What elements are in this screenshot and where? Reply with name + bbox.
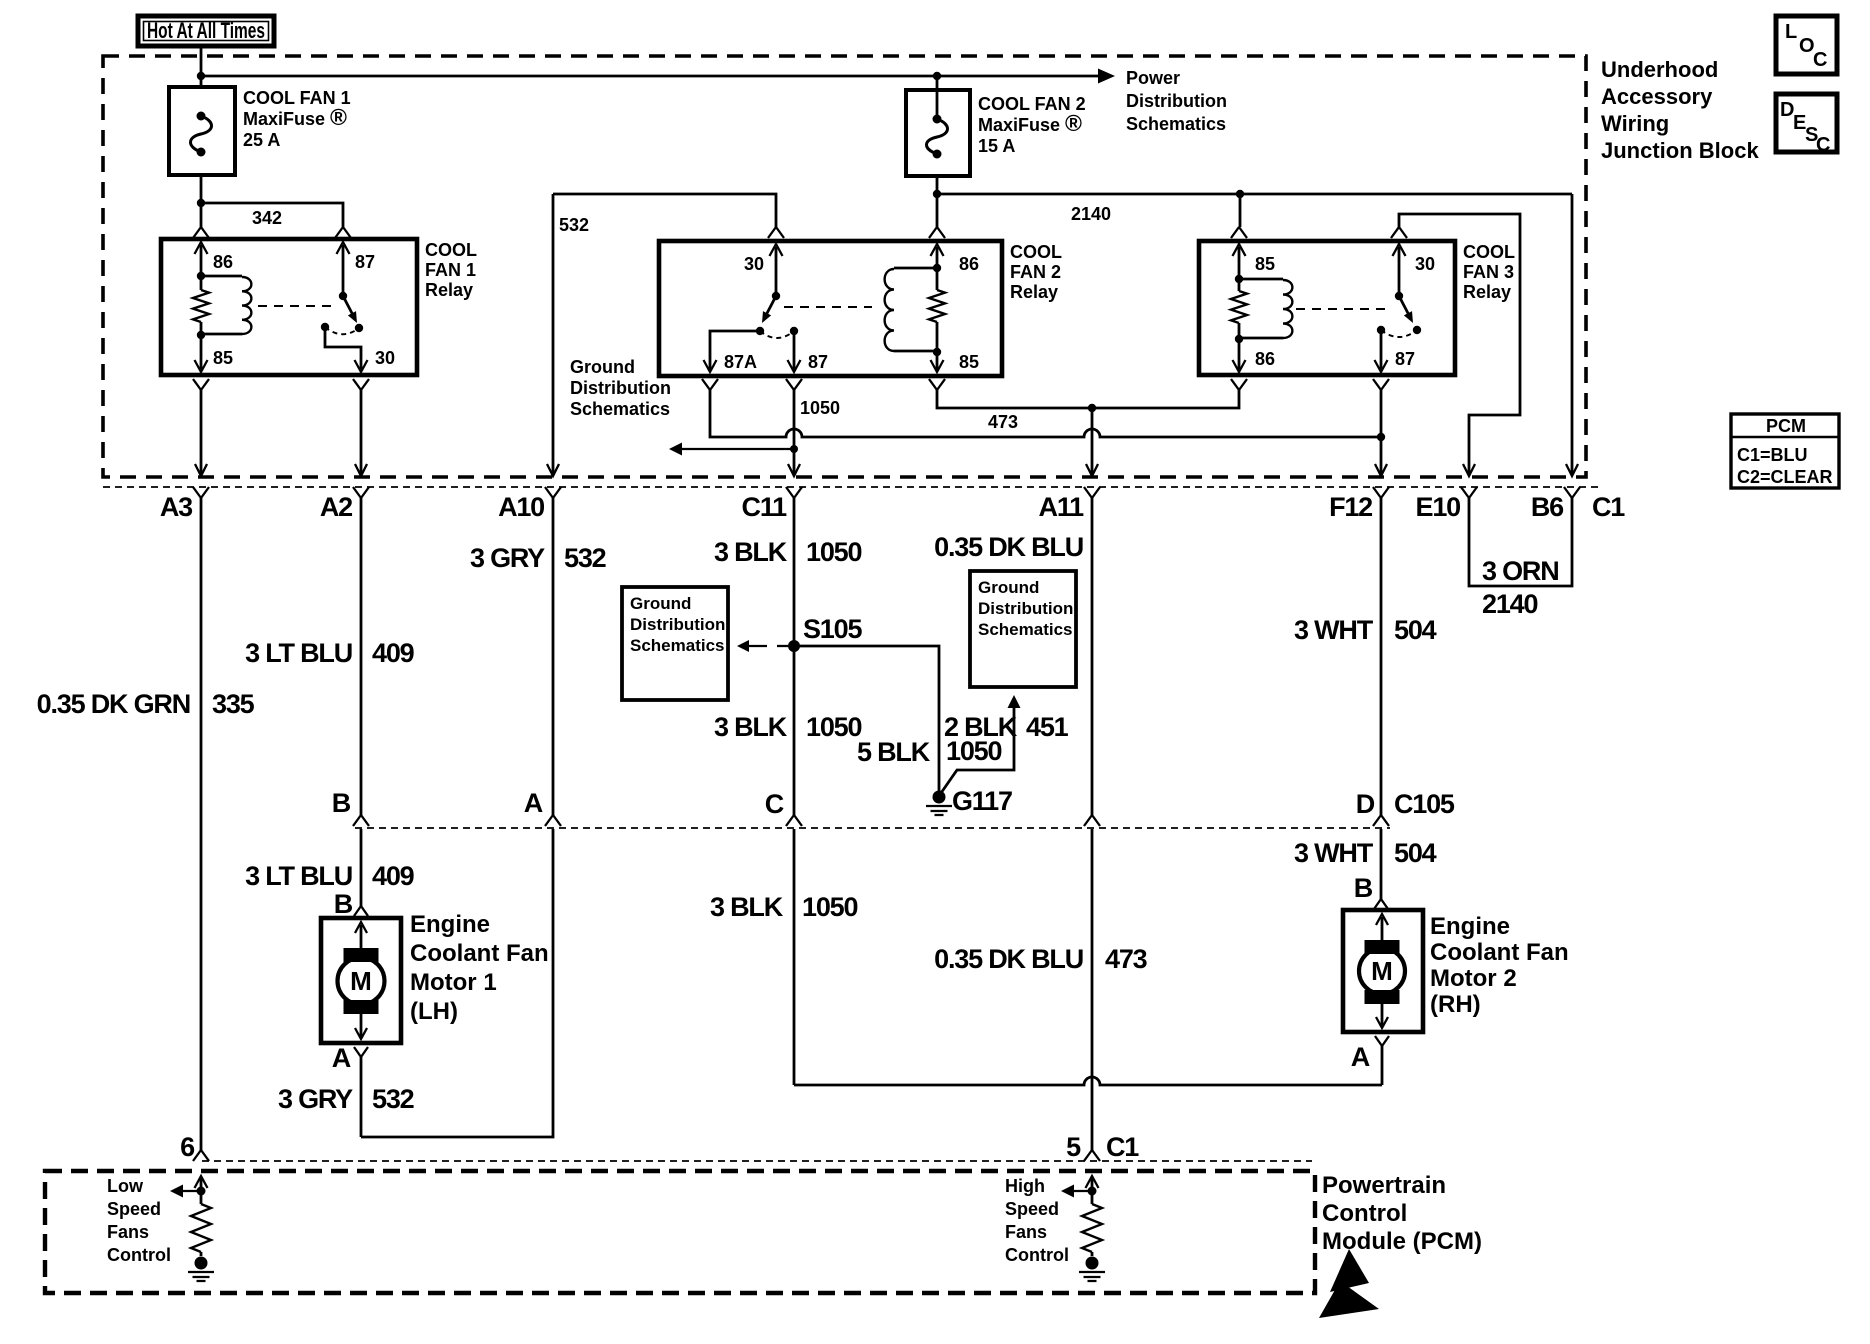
svg-text:1050: 1050 [800,398,840,418]
wire: fuse F1 output / circuit 342 bus [197,175,343,227]
svg-text:Low: Low [107,1176,144,1196]
svg-text:15 A: 15 A [978,136,1015,156]
label: Low Speed Fans Control [107,1176,171,1265]
svg-text:Speed: Speed [1005,1199,1059,1219]
pin label: PCM pin 6 [180,1132,195,1162]
svg-text:2140: 2140 [1482,589,1537,619]
connector row arrows at junction block boundary [195,462,1578,476]
wire: circuit 473 from relay K2 pin 85 to relay K3 pin 86 [937,390,1239,408]
svg-text:0.35 DK BLU: 0.35 DK BLU [934,532,1083,562]
arrow: S105 to Ground Distribution Schematics [737,640,788,652]
svg-text:Power: Power [1126,68,1180,88]
svg-text:(LH): (LH) [410,998,458,1025]
svg-text:Schematics: Schematics [978,620,1073,639]
cups below relay K1 [193,379,369,390]
PCM connector row dashed line [202,1160,1312,1162]
relay K3: COOL FAN 3 Relay [1199,241,1455,375]
relay K2 pin 86 [931,244,980,274]
relay K3 coil [1239,279,1292,338]
svg-text:C: C [765,789,784,819]
svg-text:3 WHT: 3 WHT [1294,615,1374,645]
reference box: DESC [1776,94,1837,156]
value label: 3 BLK 1050 (lower) [710,892,857,922]
svg-text:Engine: Engine [1430,913,1510,940]
svg-text:2140: 2140 [1071,204,1111,224]
pin label: motor M1 pin B [334,889,353,919]
svg-text:F12: F12 [1329,492,1372,522]
value label: 0.35 DK BLU 473 (lower) [934,944,1147,974]
wire: relay K3 pin 30 feed loop [1399,214,1520,462]
svg-text:M: M [350,966,372,996]
svg-text:532: 532 [372,1084,414,1114]
wire: circuit 2140 bus from fuse F2 [933,176,1572,462]
label: Engine Coolant Fan Motor 1 (LH) [410,911,549,1025]
relay K2 coil-to-switch dashed link [784,306,872,308]
relay K2 coil [885,268,937,351]
label: Power Distribution Schematics [1126,68,1227,134]
svg-text:451: 451 [1026,712,1069,742]
relay K1 pin 30 [325,327,395,372]
svg-text:Control: Control [1322,1200,1407,1227]
relay K3 coil-to-switch dashed link [1296,308,1392,310]
relay K1 NC contact + dashed arc [321,323,359,334]
svg-text:Control: Control [1005,1245,1069,1265]
reference box: Ground Distribution Schematics (right) [970,571,1076,687]
svg-text:1050: 1050 [802,892,857,922]
value label: 3 LT BLU 409 (upper) [245,638,415,668]
svg-text:Engine: Engine [410,911,490,938]
wire: relay K3 pin 87 to F12 [1377,390,1385,462]
svg-text:473: 473 [1105,944,1148,974]
svg-text:30: 30 [1415,254,1435,274]
wire: circuit 451 (2 BLK) from G117 to Ground Distribution [941,695,1021,793]
svg-text:Junction Block: Junction Block [1601,138,1759,163]
label: COOL FAN 3 Relay [1463,242,1515,302]
svg-text:C1: C1 [1106,1132,1139,1162]
relay K1: COOL FAN 1 Relay [161,239,417,375]
pin label: B at C105 [332,788,351,818]
svg-text:85: 85 [213,348,233,368]
value label: 0.35 DK GRN 335 [37,689,255,719]
svg-text:Speed: Speed [107,1199,161,1219]
svg-text:Schematics: Schematics [1126,114,1226,134]
wire: relay K2 pin 87A to F12 (hops over 1050 and 473 wires) [710,390,1381,437]
ground G117 [926,786,1012,816]
legend box: PCM connector colors [1731,414,1839,488]
relay K2 pin 87 [788,331,829,372]
fuse F2: COOL FAN 2 MaxiFuse 15 A [906,76,970,176]
svg-text:B: B [334,889,353,919]
svg-text:COOL: COOL [1010,242,1062,262]
relay K2 pin 30 [744,244,783,296]
splice S105 [788,614,862,652]
svg-text:High: High [1005,1176,1045,1196]
wire: relay K2 pin 87 / circuit 1050 to C11 [793,390,796,462]
relay K3 pin 85 [1233,244,1276,279]
svg-text:Relay: Relay [1010,282,1058,302]
svg-text:A: A [332,1043,351,1073]
svg-text:86: 86 [1255,349,1275,369]
svg-text:30: 30 [744,254,764,274]
value label: 5 BLK [857,737,931,767]
svg-text:D: D [1356,789,1375,819]
pin label: A at C105 [524,788,543,818]
reference box: Ground Distribution Schematics (left) [622,587,728,700]
value label: 2 BLK 1050 [944,712,1018,766]
value label: 451 [1026,712,1069,742]
wire: circuit 532 (3 GRY) A10 down to motor M1 pin A [361,498,561,1137]
relay K2 coil resistor [929,264,945,356]
relay K1 pin 85 [195,335,234,372]
svg-text:3 GRY: 3 GRY [470,543,545,573]
label: High Speed Fans Control [1005,1176,1069,1265]
relay K2 switch blade [756,292,780,335]
value label: 3 LT BLU 409 (lower) [245,861,415,891]
value label: circuit 532 [559,215,589,235]
node: 473 junction to A11 [1088,404,1096,412]
C105 connector row dashed line [355,827,1390,829]
relay K2 pin 85 [931,352,980,372]
svg-text:87: 87 [808,352,828,372]
svg-text:C11: C11 [742,492,788,522]
svg-text:Coolant Fan: Coolant Fan [410,940,549,967]
wire: circuit 532 bus to relay K2 pin 30 [553,194,776,462]
wire: circuits 2140/3 ORN at E10 and B6 tied together [1469,498,1572,586]
resistor: PCM high speed driver [1082,1191,1102,1256]
relay K3 pin 30 [1393,244,1436,296]
pin label: motor M2 pin B [1354,873,1373,903]
wire: circuit 1050 (3 BLK) C11 down through S105 [786,498,802,1085]
svg-text:6: 6 [180,1132,195,1162]
wire: ground path motor M2 A to circuit 1050 (hops over 473 wire) [794,1077,1382,1085]
svg-text:473: 473 [988,412,1018,432]
svg-text:86: 86 [213,252,233,272]
svg-text:Relay: Relay [425,280,473,300]
value label: 3 WHT 504 (lower) [1294,838,1437,868]
node: feed junction at fuse F2 [933,72,941,80]
svg-text:3 BLK: 3 BLK [714,537,788,567]
connector row dashed line C1 row [103,486,1600,488]
relay K3 pin 87 [1375,330,1416,372]
svg-text:B: B [332,788,351,818]
value label: 3 GRY 532 (motor M1 A) [278,1084,414,1114]
svg-text:3 LT BLU: 3 LT BLU [245,861,352,891]
resistor: PCM low speed driver [191,1191,211,1256]
svg-text:Distribution: Distribution [1126,91,1227,111]
label: Underhood Accessory Wiring Junction Block [1601,57,1759,163]
svg-text:(RH): (RH) [1430,991,1481,1018]
wire: relay K1 pin 85 to A3 [200,390,203,462]
svg-text:Ground: Ground [630,594,691,613]
relay K2: COOL FAN 2 Relay [659,241,1002,376]
PCM high speed fans control input [1086,1176,1099,1196]
connector cups into relay K2 [768,227,945,238]
svg-text:Distribution: Distribution [570,378,671,398]
wire: feed bus to Power Distribution [201,75,1098,78]
relay K3 contact 87 dot + dashed arc [1377,326,1417,337]
connector cups into relay K1 [193,227,351,238]
PCM connector cups [193,1150,1100,1161]
svg-text:532: 532 [559,215,589,235]
svg-text:G117: G117 [952,786,1012,816]
svg-text:FAN 2: FAN 2 [1010,262,1061,282]
svg-text:Motor 1: Motor 1 [410,969,497,996]
wire: S105 to ground G117 (5 BLK 1050) [794,646,939,791]
svg-text:Ground: Ground [570,357,635,377]
pin label: C at C105 [765,789,784,819]
svg-text:A10: A10 [498,492,544,522]
motor M1 pin A output [332,1043,368,1137]
svg-text:30: 30 [375,348,395,368]
svg-text:25 A: 25 A [243,130,280,150]
connector cups into relay K3 [1231,227,1407,238]
wire: battery feed from Hot At All Times into junction block [200,46,203,88]
svg-text:532: 532 [564,543,606,573]
svg-text:Motor 2: Motor 2 [1430,965,1517,992]
value label: circuit 342 [252,208,282,228]
relay K1 coil [201,276,251,334]
svg-text:Schematics: Schematics [630,636,725,655]
svg-text:L: L [1785,21,1797,43]
value label: 3 WHT 504 (upper) [1294,615,1437,645]
wire: circuit 473 down to A11 [1091,408,1094,462]
svg-text:FAN 3: FAN 3 [1463,262,1514,282]
relay K1 coil-to-switch dashed link [258,305,336,307]
svg-text:87: 87 [1395,349,1415,369]
svg-text:Schematics: Schematics [570,399,670,419]
connector C105 pin D label [1356,789,1455,819]
node: feed junction at fuse F1 [197,72,205,80]
relay K1 switch blade [339,292,363,332]
value label: circuit 2140 [1071,204,1111,224]
svg-text:Distribution: Distribution [630,615,725,634]
svg-text:M: M [1371,956,1393,986]
value label: circuit 1050 [800,398,840,418]
relay K2 pin 87A [704,331,761,372]
cups below relay K2 [702,379,945,390]
relay K3 pin 86 [1233,339,1276,372]
svg-text:COOL: COOL [1463,242,1515,262]
svg-text:1050: 1050 [946,736,1001,766]
svg-text:3 ORN: 3 ORN [1482,556,1559,586]
relay K2 contact 87 dot + dashed arc [760,327,798,338]
relay K3 switch blade [1395,292,1421,334]
arrow: 1050 to Ground Distribution Schematics [669,443,798,456]
svg-text:3 LT BLU: 3 LT BLU [245,638,352,668]
svg-text:Fans: Fans [107,1222,149,1242]
svg-text:A2: A2 [320,492,352,522]
svg-text:A11: A11 [1039,492,1085,522]
value label: 3 GRY 532 (upper) [470,543,606,573]
svg-text:C1: C1 [1592,492,1625,522]
wire: circuit 504 (3 WHT) F12 to motor M2 pin B [1373,498,1389,909]
svg-text:E10: E10 [1416,492,1461,522]
svg-text:86: 86 [959,254,979,274]
svg-text:85: 85 [1255,254,1275,274]
svg-text:Wiring: Wiring [1601,111,1669,136]
value label: 3 BLK 1050 (upper) [714,537,861,567]
connector row cups [193,487,1580,498]
svg-text:Accessory: Accessory [1601,84,1713,109]
relay K1 pin 87 [337,242,376,296]
motor M2: Engine Coolant Fan Motor 2 (RH) [1343,910,1423,1032]
svg-text:3 GRY: 3 GRY [278,1084,353,1114]
svg-text:A3: A3 [160,492,193,522]
pin labels: A3 A2 A10 C11 A11 F12 E10 B6 / connector C1 [160,492,1625,522]
svg-text:409: 409 [372,861,415,891]
svg-text:C: C [1816,134,1830,156]
symbol: ESD sensitive device [1319,1249,1379,1318]
label: Ground Distribution Schematics (left of relay K2) [570,357,671,419]
wire: circuit 409 (3 LT BLU) A2 to motor M1 pin B [353,498,369,916]
svg-text:0.35 DK GRN: 0.35 DK GRN [37,689,190,719]
svg-text:C: C [1813,49,1827,71]
svg-text:B: B [1354,873,1373,903]
value label: 3 BLK 1050 (middle) [714,712,861,742]
svg-text:87: 87 [355,252,375,272]
value label: 0.35 DK BLU (upper) [934,532,1083,562]
svg-text:3 BLK: 3 BLK [710,892,784,922]
svg-text:Coolant Fan: Coolant Fan [1430,939,1569,966]
svg-text:Fans: Fans [1005,1222,1047,1242]
label: fuse F2 name/value [978,94,1086,156]
svg-text:S105: S105 [803,614,862,644]
label: COOL FAN 2 Relay [1010,242,1062,302]
svg-text:C105: C105 [1394,789,1455,819]
value label: circuit 473 [988,412,1018,432]
label: fuse F1 name/value [243,88,351,150]
PCM low speed fans control input [195,1176,208,1196]
label: Hot At All Times [138,16,274,46]
arrow: high speed fans control [1061,1185,1092,1198]
svg-text:Ground: Ground [978,578,1039,597]
svg-text:C1=BLU: C1=BLU [1737,445,1808,465]
reference box: LOC [1776,16,1837,74]
svg-text:Hot At All Times: Hot At All Times [147,18,265,43]
label: Engine Coolant Fan Motor 2 (RH) [1430,913,1569,1018]
svg-text:0.35 DK BLU: 0.35 DK BLU [934,944,1083,974]
wire: circuit 335 (0.35 DK GRN) A3 to PCM pin 6 [200,498,203,1150]
svg-text:5 BLK: 5 BLK [857,737,931,767]
svg-text:COOL: COOL [425,240,477,260]
PCM dashed border: Powertrain Control Module [45,1171,1315,1293]
svg-text:87A: 87A [724,352,757,372]
svg-text:85: 85 [959,352,979,372]
motor M1: Engine Coolant Fan Motor 1 (LH) [321,918,401,1043]
svg-text:FAN 1: FAN 1 [425,260,476,280]
ground: PCM low speed [188,1257,214,1282]
svg-text:A: A [524,788,543,818]
junction block dashed border (Underhood Accessory Wiring Junction Block) [103,56,1586,477]
svg-text:Distribution: Distribution [978,599,1073,618]
value label: 3 ORN 2140 [1482,556,1559,619]
svg-text:342: 342 [252,208,282,228]
label: Powertrain Control Module (PCM) [1322,1172,1482,1255]
svg-text:504: 504 [1394,838,1437,868]
wire: relay K1 pin 30 to A2 [360,390,363,462]
relay K1 coil resistor [193,272,209,339]
svg-text:3 BLK: 3 BLK [714,712,788,742]
svg-text:335: 335 [212,689,255,719]
svg-text:504: 504 [1394,615,1437,645]
arrow: low speed fans control [170,1185,201,1198]
svg-text:Powertrain: Powertrain [1322,1172,1446,1199]
svg-text:A: A [1351,1042,1370,1072]
label: COOL FAN 1 Relay [425,240,477,300]
svg-text:B6: B6 [1531,492,1564,522]
svg-text:409: 409 [372,638,415,668]
svg-text:Module (PCM): Module (PCM) [1322,1228,1482,1255]
wire: circuit 473 (0.35 DK BLU) A11 to PCM pin 5 [1084,498,1100,1150]
relay K3 coil resistor [1231,275,1247,343]
motor M2 pin A output [1351,1036,1389,1085]
svg-text:5: 5 [1066,1132,1081,1162]
arrow: to Power Distribution Schematics [1098,69,1115,84]
ground: PCM high speed [1079,1257,1105,1282]
cups below relay K3 [1231,379,1389,390]
svg-text:Underhood: Underhood [1601,57,1718,82]
svg-text:3 WHT: 3 WHT [1294,838,1374,868]
svg-text:C2=CLEAR: C2=CLEAR [1737,467,1833,487]
pin label: PCM pin 5 / connector C1 [1066,1132,1139,1162]
svg-text:1050: 1050 [806,537,861,567]
svg-text:1050: 1050 [806,712,861,742]
relay K1 pin 86 [195,242,234,276]
svg-text:Control: Control [107,1245,171,1265]
svg-text:PCM: PCM [1766,416,1806,436]
svg-text:Relay: Relay [1463,282,1511,302]
fuse F1: COOL FAN 1 MaxiFuse 25 A [169,87,235,175]
